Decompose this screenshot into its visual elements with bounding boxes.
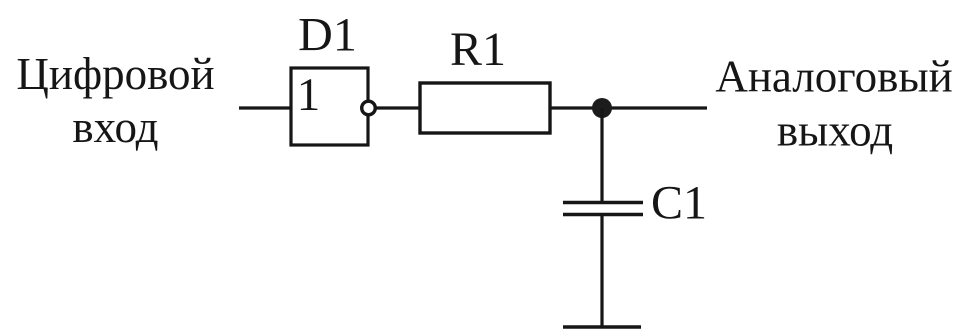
svg-text:R1: R1 — [450, 23, 506, 76]
svg-text:D1: D1 — [298, 9, 357, 62]
svg-text:вход: вход — [72, 102, 158, 152]
svg-text:Цифровой: Цифровой — [16, 49, 214, 99]
svg-text:C1: C1 — [651, 177, 707, 230]
svg-text:1: 1 — [297, 69, 321, 121]
svg-text:Аналоговый: Аналоговый — [715, 52, 952, 102]
svg-text:выход: выход — [777, 106, 893, 156]
